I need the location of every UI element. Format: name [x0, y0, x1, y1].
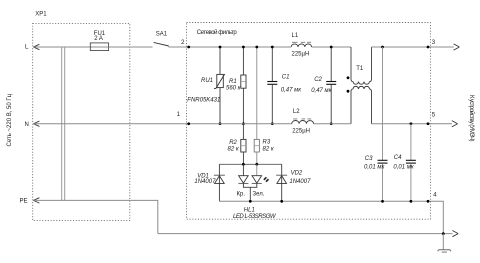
resistor R1 column top	[242, 47, 244, 75]
capacitor C1 column bottom	[271, 85, 273, 124]
LED emission arrow	[264, 177, 269, 181]
diode VD2 column	[281, 164, 283, 201]
junction RU1 bottom	[219, 122, 222, 125]
junction C3 bottom	[381, 200, 384, 203]
junction rail R2	[242, 163, 245, 166]
junction R1/R2 on N	[242, 122, 245, 125]
capacitor C3 column top	[382, 47, 384, 160]
connector XP1 dashed box	[33, 23, 130, 220]
terminal ground-bus arrow	[452, 231, 458, 237]
varistor RU1 column bottom	[219, 88, 221, 124]
svg-text:L1: L1	[292, 33, 299, 39]
diode VD1	[214, 175, 225, 183]
capacitor C2 column top	[330, 47, 332, 81]
terminal 5 arrow	[452, 121, 458, 127]
svg-text:2: 2	[181, 40, 185, 46]
svg-text:R1: R1	[229, 79, 237, 85]
terminal L arrow	[33, 44, 39, 49]
junction C2 top	[330, 46, 333, 49]
switch SA1 lever	[154, 42, 169, 46]
wire PE to ground bus	[34, 200, 158, 233]
svg-text:82 к: 82 к	[263, 146, 275, 152]
terminal 3 arrow	[454, 44, 460, 50]
cable line b	[64, 47, 66, 200]
svg-text:R3: R3	[263, 139, 271, 145]
svg-text:R2: R2	[229, 140, 237, 146]
resistor R3 column bottom	[256, 152, 258, 164]
varistor RU1 column top	[219, 47, 221, 74]
svg-text:225µH: 225µH	[292, 51, 310, 57]
svg-text:SA1: SA1	[156, 31, 168, 37]
junction pin 3	[427, 46, 430, 49]
svg-text:0,01 мк: 0,01 мк	[393, 165, 414, 171]
svg-text:LED L-53SRSGW: LED L-53SRSGW	[233, 214, 277, 220]
varistor RU1	[214, 74, 225, 88]
svg-text:1: 1	[177, 112, 181, 118]
junction pin 4	[427, 200, 430, 203]
svg-text:0,47 мк: 0,47 мк	[281, 87, 302, 93]
wire L from terminal to fuse	[34, 46, 90, 48]
junction pin 1	[187, 122, 190, 125]
resistor R3	[254, 139, 259, 152]
svg-text:FNR05K431: FNR05K431	[187, 98, 220, 104]
junction RU1 top	[219, 46, 222, 49]
inductor L2	[292, 119, 314, 124]
svg-text:560 к: 560 к	[226, 86, 242, 92]
wire fuse to switch	[109, 46, 153, 48]
capacitor C3	[378, 160, 388, 163]
svg-text:3: 3	[432, 40, 436, 46]
svg-text:VD2: VD2	[291, 170, 303, 176]
svg-text:C3: C3	[365, 156, 373, 162]
LED HL1 green	[252, 176, 262, 184]
wire L line after L1 to T1	[312, 46, 351, 48]
svg-text:C4: C4	[394, 155, 402, 161]
svg-text:XP1: XP1	[35, 11, 47, 17]
resistor R3 column from L line	[256, 47, 258, 139]
inductor L1	[291, 42, 311, 47]
svg-text:C2: C2	[314, 77, 322, 83]
junction R3 top	[255, 46, 258, 49]
bottom rail wire (VD1 to node 4)	[219, 201, 443, 233]
svg-text:1N4007: 1N4007	[194, 179, 216, 185]
svg-text:HL1: HL1	[244, 208, 255, 214]
junction pin 5	[427, 122, 430, 125]
svg-text:0,47 мк: 0,47 мк	[311, 88, 332, 94]
wire node3 from T1 to arrow	[372, 46, 454, 48]
transformer T1	[347, 47, 372, 124]
svg-text:2 A: 2 A	[94, 36, 103, 42]
svg-text:Сеть ~220 В, 50 Гц: Сеть ~220 В, 50 Гц	[7, 93, 13, 146]
diode VD1 column	[218, 164, 220, 201]
junction C2 bottom	[330, 122, 333, 125]
capacitor C1	[267, 82, 277, 85]
junction C4 bottom	[410, 200, 413, 203]
svg-text:L: L	[25, 45, 29, 51]
LED HL1 red	[238, 176, 248, 184]
wire LED cathodes join	[243, 183, 256, 201]
ground symbol	[438, 234, 451, 253]
svg-text:Кр.: Кр.	[237, 192, 246, 198]
junction C1 bottom	[271, 122, 274, 125]
diode VD2	[276, 175, 287, 183]
svg-text:N: N	[25, 122, 29, 128]
filter dashed box (Сетевой фильтр)	[187, 23, 431, 220]
svg-text:4: 4	[433, 192, 437, 198]
junction R1 top	[242, 46, 245, 49]
junction C3 top	[381, 46, 384, 49]
svg-text:К устройству (УМЗЧ): К устройству (УМЗЧ)	[468, 95, 475, 142]
capacitor C4 column bottom	[410, 163, 412, 201]
junction LED common	[249, 200, 252, 203]
svg-text:RU1: RU1	[201, 78, 213, 84]
ground bus wire	[158, 233, 453, 235]
LED HL1 red column	[242, 164, 244, 175]
resistor R2 column top	[242, 124, 244, 140]
svg-text:0,01 мк: 0,01 мк	[364, 165, 385, 171]
junction pin 2	[187, 46, 190, 49]
resistor R1	[241, 75, 246, 88]
resistor R1 column bottom	[242, 88, 244, 124]
capacitor C3 column bottom	[382, 163, 384, 201]
resistor R2 column bottom	[242, 152, 244, 164]
svg-text:1N4007: 1N4007	[289, 179, 311, 185]
capacitor C2 column bottom	[330, 85, 332, 124]
svg-text:5: 5	[432, 113, 436, 119]
capacitor C1 column top	[271, 47, 273, 81]
svg-text:Зел.: Зел.	[253, 192, 265, 198]
cable line a	[61, 47, 63, 200]
wire N after L2 to T1 corner	[314, 123, 351, 125]
svg-text:225µH: 225µH	[292, 128, 310, 134]
svg-text:C1: C1	[282, 75, 290, 81]
terminal PE arrow	[33, 198, 39, 203]
capacitor C2	[326, 82, 336, 85]
svg-text:T1: T1	[356, 66, 364, 72]
svg-text:PE: PE	[20, 199, 28, 205]
terminal N arrow	[33, 121, 39, 126]
svg-text:Сетевой фильтр: Сетевой фильтр	[197, 29, 238, 36]
resistor R2	[241, 139, 246, 152]
junction C1 top	[271, 46, 274, 49]
wire switch to T1 (L line)	[169, 46, 292, 48]
junction ground bus	[442, 232, 445, 235]
junction C4 top	[410, 122, 413, 125]
svg-text:L2: L2	[293, 109, 300, 115]
wire N from terminal to T1	[34, 123, 292, 125]
wire node5 from T1 to arrow	[372, 123, 453, 125]
LED HL1 green column	[256, 164, 258, 175]
anode rail wire	[219, 163, 281, 165]
fuse FU1	[90, 43, 108, 51]
wire through fuse	[90, 46, 108, 48]
capacitor C4 column top	[410, 124, 412, 160]
junction rail R3	[255, 163, 258, 166]
svg-text:82 к: 82 к	[228, 146, 240, 152]
junction VD2 bottom	[280, 200, 283, 203]
capacitor C4	[406, 160, 416, 163]
